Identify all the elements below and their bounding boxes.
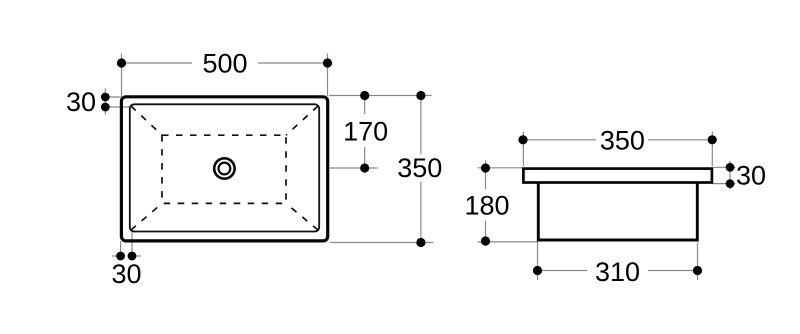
slope line top-right (dashed) bbox=[286, 106, 318, 135]
extension line at drain center (170 dim) bbox=[330, 167, 378, 169]
svg-text:350: 350 bbox=[600, 126, 645, 156]
dimension line 350 (plan) bbox=[416, 91, 425, 247]
dimension 30 (rim thickness, side) bbox=[713, 161, 736, 190]
svg-text:500: 500 bbox=[202, 49, 247, 79]
dimension line 180 bbox=[481, 161, 490, 247]
extension line bottom-right (350 dim) bbox=[330, 242, 434, 244]
dimension line 500 bbox=[117, 58, 332, 67]
svg-text:170: 170 bbox=[343, 117, 388, 147]
extension line right (310 dim) bbox=[697, 243, 699, 281]
svg-text:310: 310 bbox=[595, 257, 640, 287]
dimension 30 (top-left rim width) bbox=[101, 89, 131, 115]
svg-text:30: 30 bbox=[66, 87, 96, 117]
dimension line 350 (side) bbox=[518, 135, 716, 144]
basin bowl (side view) bbox=[538, 184, 697, 241]
svg-text:180: 180 bbox=[464, 191, 509, 221]
drain outer circle bbox=[214, 158, 234, 178]
extension line top (180 dim) bbox=[478, 167, 523, 169]
extension line left (500 dim, left) bbox=[121, 54, 123, 97]
extension line left (310 dim) bbox=[537, 243, 539, 281]
extension line right (500 dim, right) bbox=[327, 54, 329, 97]
extension line top-right (shared by 170 and 350 dims) bbox=[329, 95, 432, 97]
svg-text:30: 30 bbox=[111, 259, 141, 289]
svg-text:350: 350 bbox=[397, 153, 442, 183]
drain inner circle bbox=[219, 163, 231, 175]
extension line bottom (180 dim) bbox=[478, 241, 539, 243]
slope line bottom-left (dashed) bbox=[131, 203, 162, 230]
extension line left (350 dim side, left) bbox=[522, 132, 524, 167]
svg-text:30: 30 bbox=[736, 161, 766, 191]
basin outer rim (plan) bbox=[121, 97, 327, 241]
slope line top-left (dashed) bbox=[131, 106, 162, 135]
dimension 30 (bottom-left rim width) bbox=[112, 231, 141, 260]
basin rim (side view) bbox=[523, 169, 712, 183]
extension line right (350 dim side, right) bbox=[711, 132, 713, 167]
basin inner rim (plan) bbox=[130, 104, 319, 231]
slope line bottom-right (dashed) bbox=[286, 203, 318, 230]
dimension line 170 bbox=[360, 91, 369, 173]
basin bottom edge (hidden, dashed) bbox=[162, 135, 286, 203]
dimension line 310 bbox=[533, 266, 702, 275]
